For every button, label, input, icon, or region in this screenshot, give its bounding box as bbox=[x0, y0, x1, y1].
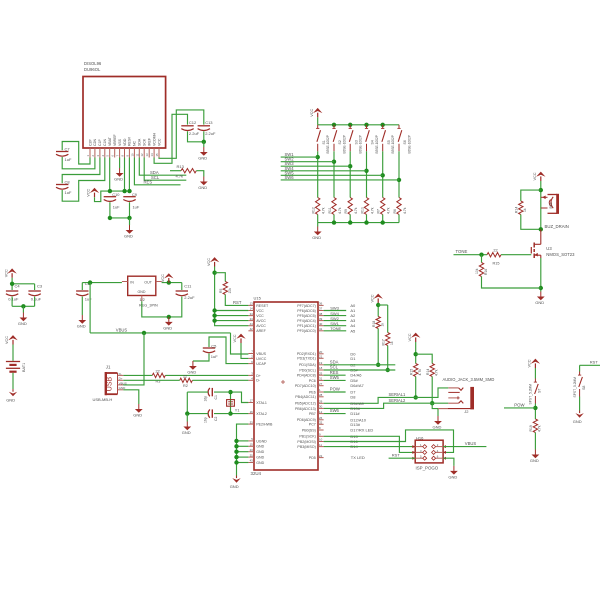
svg-text:26: 26 bbox=[319, 416, 323, 420]
svg-text:XTAL1: XTAL1 bbox=[256, 401, 267, 405]
svg-text:16: 16 bbox=[250, 410, 254, 414]
svg-text:PF1(ADC1): PF1(ADC1) bbox=[297, 324, 316, 328]
svg-text:4.7k: 4.7k bbox=[338, 207, 342, 214]
svg-text:BUZ_DRAIN: BUZ_DRAIN bbox=[545, 224, 569, 229]
svg-text:D-: D- bbox=[119, 372, 122, 376]
svg-text:DU96OL: DU96OL bbox=[84, 67, 101, 72]
svg-text:IREF: IREF bbox=[148, 138, 152, 146]
svg-text:TX LED: TX LED bbox=[351, 455, 365, 460]
svg-text:VCC: VCC bbox=[370, 294, 374, 302]
svg-text:B3SE-1002P: B3SE-1002P bbox=[326, 135, 330, 153]
svg-text:VCC: VCC bbox=[408, 333, 412, 341]
svg-text:12: 12 bbox=[319, 410, 323, 414]
svg-text:B3SE-1002P: B3SE-1002P bbox=[408, 135, 412, 153]
svg-text:1uF: 1uF bbox=[211, 354, 218, 359]
svg-text:PD7(ADC10): PD7(ADC10) bbox=[295, 384, 316, 388]
svg-text:1uF: 1uF bbox=[113, 204, 120, 209]
svg-text:R14: R14 bbox=[426, 369, 430, 375]
svg-text:19: 19 bbox=[319, 361, 323, 365]
svg-text:C9: C9 bbox=[132, 192, 137, 197]
svg-text:VCC: VCC bbox=[256, 314, 264, 318]
svg-text:R9: R9 bbox=[344, 209, 348, 213]
svg-text:AUDIO_JACK_3.5MM_SMD: AUDIO_JACK_3.5MM_SMD bbox=[443, 377, 495, 382]
svg-text:13: 13 bbox=[145, 153, 149, 157]
svg-text:35: 35 bbox=[250, 453, 254, 457]
svg-text:4.7k: 4.7k bbox=[370, 207, 374, 214]
svg-text:4.7k: 4.7k bbox=[403, 207, 407, 214]
svg-text:VCC: VCC bbox=[87, 188, 91, 196]
svg-text:H16: H16 bbox=[416, 435, 424, 440]
svg-text:C2N: C2N bbox=[93, 139, 97, 146]
svg-text:VCC: VCC bbox=[161, 274, 165, 282]
svg-text:SCK: SCK bbox=[143, 138, 147, 146]
svg-text:SW6: SW6 bbox=[330, 408, 340, 413]
svg-text:1uF: 1uF bbox=[133, 204, 140, 209]
svg-text:PD3(TXD1): PD3(TXD1) bbox=[297, 357, 316, 361]
svg-text:UCAP: UCAP bbox=[256, 362, 267, 366]
svg-text:GND: GND bbox=[6, 398, 15, 403]
svg-text:GND: GND bbox=[187, 370, 196, 375]
svg-text:20: 20 bbox=[319, 350, 323, 354]
svg-text:R5: R5 bbox=[219, 289, 223, 293]
svg-text:GND: GND bbox=[256, 445, 264, 449]
svg-text:44: 44 bbox=[250, 322, 254, 326]
svg-text:SCL: SCL bbox=[330, 365, 339, 370]
svg-text:D13#: D13# bbox=[350, 422, 360, 427]
svg-text:PD6(ADC9): PD6(ADC9) bbox=[297, 418, 316, 422]
svg-text:POW: POW bbox=[330, 387, 340, 392]
svg-text:2.2uF: 2.2uF bbox=[184, 295, 195, 300]
svg-text:32U4: 32U4 bbox=[251, 471, 262, 476]
svg-text:R10: R10 bbox=[360, 207, 364, 213]
svg-text:S8: S8 bbox=[582, 386, 586, 390]
svg-text:4.7k: 4.7k bbox=[322, 207, 326, 214]
svg-text:SPST_5.2MM: SPST_5.2MM bbox=[529, 384, 533, 405]
svg-text:TONE: TONE bbox=[330, 326, 341, 331]
svg-text:C13: C13 bbox=[205, 120, 213, 125]
svg-text:S7: S7 bbox=[538, 389, 542, 393]
svg-text:GND: GND bbox=[573, 419, 582, 424]
svg-text:PE6: PE6 bbox=[309, 390, 316, 394]
svg-text:VCC: VCC bbox=[256, 309, 264, 313]
svg-text:GND: GND bbox=[138, 290, 146, 294]
svg-text:39: 39 bbox=[319, 317, 323, 321]
svg-text:D+: D+ bbox=[119, 377, 123, 381]
svg-text:VSS: VSS bbox=[118, 138, 122, 146]
svg-text:PB4(ADC11): PB4(ADC11) bbox=[295, 395, 316, 399]
svg-text:1uF: 1uF bbox=[85, 297, 92, 302]
svg-text:C2P: C2P bbox=[88, 139, 92, 146]
svg-text:4.7k: 4.7k bbox=[418, 369, 422, 376]
svg-text:2.2uF: 2.2uF bbox=[189, 131, 200, 136]
svg-text:33: 33 bbox=[250, 420, 254, 424]
svg-text:R2: R2 bbox=[183, 384, 188, 388]
svg-text:R19: R19 bbox=[529, 425, 533, 431]
svg-text:1uF: 1uF bbox=[65, 157, 72, 162]
svg-text:21: 21 bbox=[319, 355, 323, 359]
svg-text:R12: R12 bbox=[312, 207, 316, 213]
svg-text:37: 37 bbox=[319, 307, 323, 311]
svg-text:GND: GND bbox=[433, 425, 442, 430]
svg-text:1k: 1k bbox=[523, 208, 527, 212]
svg-text:14: 14 bbox=[250, 307, 254, 311]
svg-text:4.7k: 4.7k bbox=[435, 369, 439, 376]
svg-text:1uF: 1uF bbox=[65, 190, 72, 195]
svg-text:PB7: PB7 bbox=[309, 412, 316, 416]
svg-text:GND: GND bbox=[448, 474, 457, 479]
svg-text:B3SE-1002P: B3SE-1002P bbox=[375, 135, 379, 153]
svg-text:PD4(ADC8): PD4(ADC8) bbox=[297, 374, 316, 378]
svg-text:1k: 1k bbox=[390, 341, 394, 345]
svg-text:16p: 16p bbox=[204, 396, 208, 402]
svg-text:NMOS_SOT23: NMOS_SOT23 bbox=[546, 252, 575, 257]
svg-text:RST: RST bbox=[233, 300, 242, 305]
svg-text:14: 14 bbox=[150, 153, 154, 157]
svg-text:POW: POW bbox=[514, 403, 525, 408]
svg-text:TONE: TONE bbox=[456, 249, 468, 254]
svg-text:VBUS: VBUS bbox=[116, 328, 128, 333]
svg-text:SW6: SW6 bbox=[285, 175, 295, 180]
svg-text:VBAT: VBAT bbox=[108, 136, 112, 146]
svg-text:GND: GND bbox=[312, 235, 321, 240]
svg-text:C1: C1 bbox=[214, 395, 218, 399]
svg-text:VBREF: VBREF bbox=[113, 134, 117, 146]
svg-text:D+: D+ bbox=[256, 374, 261, 378]
svg-text:RST: RST bbox=[392, 453, 401, 458]
svg-text:VCC: VCC bbox=[207, 258, 211, 266]
svg-text:VDD: VDD bbox=[123, 138, 127, 146]
svg-text:0.1uF: 0.1uF bbox=[31, 296, 42, 301]
svg-text:10: 10 bbox=[319, 438, 323, 442]
svg-text:38: 38 bbox=[319, 312, 323, 316]
svg-text:GND: GND bbox=[18, 321, 27, 326]
svg-text:D6#/A7: D6#/A7 bbox=[350, 383, 364, 388]
svg-text:C3: C3 bbox=[37, 284, 43, 289]
svg-text:D1: D1 bbox=[350, 356, 356, 361]
svg-text:SERIAL1: SERIAL1 bbox=[389, 392, 407, 397]
svg-text:24: 24 bbox=[250, 317, 254, 321]
svg-text:GND: GND bbox=[182, 430, 191, 435]
svg-text:B3SE-1002P: B3SE-1002P bbox=[391, 135, 395, 153]
svg-text:27: 27 bbox=[319, 382, 323, 386]
svg-text:25: 25 bbox=[319, 371, 323, 375]
svg-text:SDA: SDA bbox=[138, 138, 142, 146]
svg-text:PF4(ADC4): PF4(ADC4) bbox=[297, 319, 316, 323]
svg-text:PB0(SS): PB0(SS) bbox=[302, 428, 316, 432]
svg-text:GND: GND bbox=[198, 185, 207, 190]
svg-text:C8: C8 bbox=[65, 180, 71, 185]
svg-text:D11#: D11# bbox=[350, 411, 360, 416]
svg-text:D8: D8 bbox=[350, 394, 356, 399]
svg-text:22: 22 bbox=[156, 369, 160, 373]
svg-text:PB2(MOSI): PB2(MOSI) bbox=[297, 440, 315, 444]
svg-text:C1N: C1N bbox=[103, 139, 107, 146]
svg-text:BZ1: BZ1 bbox=[549, 202, 553, 208]
svg-text:D17/RX LED: D17/RX LED bbox=[350, 428, 373, 433]
svg-text:VBUS: VBUS bbox=[465, 441, 477, 446]
svg-text:NC: NC bbox=[133, 140, 137, 146]
svg-text:VCC: VCC bbox=[157, 138, 161, 146]
svg-text:PD2(RXD1): PD2(RXD1) bbox=[297, 352, 316, 356]
svg-text:16p: 16p bbox=[204, 417, 208, 423]
svg-text:28: 28 bbox=[319, 393, 323, 397]
svg-text:D5#: D5# bbox=[350, 378, 358, 383]
svg-text:C1P: C1P bbox=[98, 139, 102, 146]
svg-text:RES#: RES# bbox=[128, 137, 132, 146]
svg-text:J1: J1 bbox=[106, 365, 111, 370]
svg-text:SCL: SCL bbox=[151, 175, 160, 180]
svg-text:R14: R14 bbox=[515, 207, 519, 213]
svg-text:SW5: SW5 bbox=[330, 375, 340, 380]
svg-text:PB6(ADC13): PB6(ADC13) bbox=[295, 407, 316, 411]
svg-text:UGND: UGND bbox=[256, 439, 267, 443]
svg-text:GND: GND bbox=[256, 456, 264, 460]
svg-text:1k: 1k bbox=[381, 323, 385, 327]
svg-text:PB3(MISO): PB3(MISO) bbox=[297, 445, 315, 449]
svg-text:C11: C11 bbox=[184, 283, 192, 288]
svg-text:C10: C10 bbox=[112, 192, 120, 197]
svg-text:PE2/HWB: PE2/HWB bbox=[256, 423, 273, 427]
svg-text:R6: R6 bbox=[393, 209, 397, 213]
svg-text:GND: GND bbox=[77, 324, 86, 329]
svg-text:R17: R17 bbox=[382, 339, 386, 345]
svg-text:VCOMH: VCOMH bbox=[152, 133, 156, 147]
svg-text:31: 31 bbox=[319, 377, 323, 381]
svg-text:Y1: Y1 bbox=[235, 408, 240, 412]
svg-text:XTAL2: XTAL2 bbox=[256, 412, 267, 416]
svg-text:10k: 10k bbox=[228, 288, 232, 294]
svg-text:VCC: VCC bbox=[310, 109, 314, 117]
svg-text:C2: C2 bbox=[214, 417, 218, 421]
svg-text:GND: GND bbox=[256, 461, 264, 465]
svg-text:10k: 10k bbox=[475, 268, 479, 274]
svg-text:RST: RST bbox=[590, 360, 599, 365]
svg-text:USB: USB bbox=[107, 376, 114, 391]
svg-text:15: 15 bbox=[155, 153, 159, 157]
svg-text:GND: GND bbox=[163, 325, 172, 330]
svg-text:A5: A5 bbox=[350, 328, 356, 333]
svg-text:PB1(SCK): PB1(SCK) bbox=[299, 435, 316, 439]
svg-text:R16: R16 bbox=[484, 269, 488, 275]
svg-text:GND: GND bbox=[230, 484, 239, 489]
svg-text:4.7k: 4.7k bbox=[387, 207, 391, 214]
svg-text:PC7: PC7 bbox=[309, 423, 316, 427]
svg-text:22: 22 bbox=[183, 374, 187, 378]
svg-text:AREF: AREF bbox=[256, 329, 266, 333]
svg-text:UVCC: UVCC bbox=[256, 357, 267, 361]
svg-text:GND: GND bbox=[124, 234, 133, 239]
svg-text:4.7k: 4.7k bbox=[354, 207, 358, 214]
svg-text:OUT: OUT bbox=[144, 280, 152, 284]
svg-text:VCC: VCC bbox=[233, 334, 237, 342]
svg-text:22: 22 bbox=[493, 248, 497, 252]
svg-text:15: 15 bbox=[250, 443, 254, 447]
svg-text:GND: GND bbox=[133, 413, 142, 418]
svg-text:42: 42 bbox=[250, 327, 254, 331]
svg-text:VCC: VCC bbox=[528, 359, 532, 367]
svg-text:PF0(ADC0): PF0(ADC0) bbox=[297, 329, 316, 333]
svg-text:IN: IN bbox=[130, 280, 134, 284]
svg-text:PF6(ADC6): PF6(ADC6) bbox=[297, 309, 316, 313]
svg-text:4.7k: 4.7k bbox=[176, 174, 184, 179]
svg-text:USB-MB-H: USB-MB-H bbox=[93, 397, 113, 402]
svg-text:29: 29 bbox=[319, 400, 323, 404]
svg-text:34: 34 bbox=[250, 312, 254, 316]
svg-text:41: 41 bbox=[319, 327, 323, 331]
svg-text:R15: R15 bbox=[410, 369, 414, 375]
svg-text:PB5(ADC12): PB5(ADC12) bbox=[295, 402, 316, 406]
svg-text:32: 32 bbox=[319, 421, 323, 425]
svg-text:B3SE-1002P: B3SE-1002P bbox=[343, 135, 347, 153]
svg-text:43: 43 bbox=[250, 459, 254, 463]
svg-text:PC6: PC6 bbox=[309, 379, 316, 383]
svg-text:C5: C5 bbox=[211, 343, 217, 348]
svg-text:C12: C12 bbox=[189, 120, 197, 125]
svg-text:36: 36 bbox=[319, 302, 323, 306]
svg-text:R7: R7 bbox=[377, 209, 381, 213]
svg-text:40: 40 bbox=[319, 322, 323, 326]
svg-text:17: 17 bbox=[250, 399, 254, 403]
svg-text:RESET: RESET bbox=[256, 304, 269, 308]
svg-text:VBUS: VBUS bbox=[256, 352, 266, 356]
svg-text:PD1(SDA): PD1(SDA) bbox=[299, 363, 316, 367]
svg-text:SPST_5.2MM: SPST_5.2MM bbox=[573, 377, 577, 398]
svg-text:AVCC: AVCC bbox=[256, 324, 266, 328]
svg-text:R13: R13 bbox=[177, 164, 185, 169]
svg-text:GND: GND bbox=[530, 458, 539, 463]
svg-text:12: 12 bbox=[140, 153, 144, 157]
svg-text:22: 22 bbox=[319, 454, 323, 458]
svg-text:23: 23 bbox=[250, 448, 254, 452]
svg-text:PD0(SCL): PD0(SCL) bbox=[299, 368, 315, 372]
svg-text:R11: R11 bbox=[328, 207, 332, 213]
svg-text:B3SE-1002P: B3SE-1002P bbox=[359, 135, 363, 153]
svg-text:30: 30 bbox=[319, 405, 323, 409]
svg-text:13: 13 bbox=[250, 302, 254, 306]
svg-text:PF7(ADC7): PF7(ADC7) bbox=[297, 304, 316, 308]
svg-text:PD5: PD5 bbox=[309, 456, 316, 460]
svg-text:0.1uF: 0.1uF bbox=[8, 296, 19, 301]
svg-text:2.2uF: 2.2uF bbox=[205, 131, 216, 136]
svg-text:R15: R15 bbox=[493, 261, 500, 265]
svg-text:11: 11 bbox=[135, 153, 139, 156]
svg-text:U3: U3 bbox=[546, 246, 552, 251]
svg-text:DISOL96: DISOL96 bbox=[84, 61, 102, 66]
svg-text:SERIAL2: SERIAL2 bbox=[389, 398, 407, 403]
svg-text:ISP_POGO: ISP_POGO bbox=[416, 465, 439, 470]
svg-text:C7: C7 bbox=[65, 147, 71, 152]
svg-text:VCC: VCC bbox=[4, 269, 8, 277]
svg-text:GND: GND bbox=[535, 300, 544, 305]
svg-text:VCC: VCC bbox=[5, 336, 9, 344]
svg-text:R18: R18 bbox=[372, 321, 376, 327]
svg-text:PF5(ADC5): PF5(ADC5) bbox=[297, 314, 316, 318]
svg-text:GND: GND bbox=[256, 450, 264, 454]
svg-text:GND: GND bbox=[114, 177, 123, 182]
svg-text:VCC: VCC bbox=[533, 172, 537, 180]
svg-text:10: 10 bbox=[130, 153, 134, 157]
svg-text:GND: GND bbox=[198, 156, 207, 161]
svg-text:RES: RES bbox=[144, 179, 153, 184]
svg-text:C4: C4 bbox=[15, 284, 21, 289]
svg-text:18: 18 bbox=[319, 366, 323, 370]
svg-text:4.7k: 4.7k bbox=[538, 425, 542, 432]
svg-text:BAT1: BAT1 bbox=[22, 363, 26, 372]
svg-text:U15: U15 bbox=[254, 295, 262, 300]
svg-text:11: 11 bbox=[319, 443, 322, 447]
svg-text:AVCC: AVCC bbox=[256, 319, 266, 323]
